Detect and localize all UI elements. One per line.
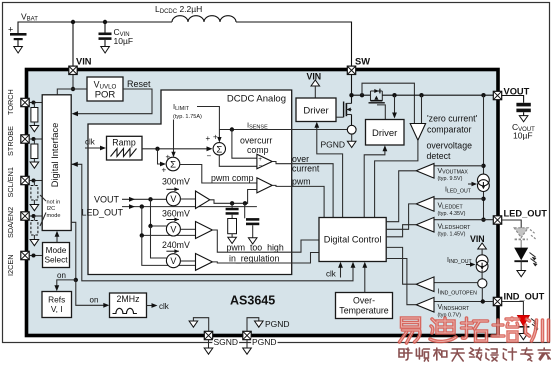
svg-text:10µF: 10µF xyxy=(114,36,134,46)
svg-text:VIN: VIN xyxy=(307,72,322,82)
inductor LDCDC xyxy=(172,16,236,22)
wire to driver2 top xyxy=(394,95,396,113)
wire ramp tap to sigma1 xyxy=(158,149,161,164)
junction dot ISENSE xyxy=(230,127,234,131)
ground PGND external xyxy=(246,340,248,348)
pin VIN xyxy=(69,66,77,74)
wire VOUT to CVOUT xyxy=(502,96,524,103)
wire SW pin down xyxy=(351,75,353,104)
pin SDA/EN2 xyxy=(21,212,29,220)
svg-text:240mV: 240mV xyxy=(162,240,190,250)
note not in I2C mode with leaders xyxy=(47,200,61,220)
svg-text:ILED_OUT: ILED_OUT xyxy=(445,187,472,195)
wire digital control to driver1 xyxy=(317,127,343,218)
svg-text:LED_OUT: LED_OUT xyxy=(504,209,548,219)
svg-text:PGND: PGND xyxy=(321,140,346,150)
svg-text:300mV: 300mV xyxy=(162,177,190,187)
svg-text:+: + xyxy=(258,156,262,163)
wire leddet input xyxy=(434,198,484,200)
svg-text:VVOUTMAX: VVOUTMAX xyxy=(438,168,469,176)
svg-text:Driver: Driver xyxy=(303,106,328,117)
sawtooth waveform xyxy=(111,149,137,157)
svg-text:POR: POR xyxy=(95,90,116,101)
wire ISENSE xyxy=(219,129,347,131)
wire vmeter300 to comparator xyxy=(180,198,195,200)
wire on-net to 2MHz xyxy=(76,280,104,305)
ground SCL resistor xyxy=(30,205,39,211)
svg-text:IND_OUT: IND_OUT xyxy=(504,292,545,302)
junction dot SCL/EN1 xyxy=(32,179,36,183)
wire ILIMIT to sigma2 xyxy=(197,107,219,139)
capacitor CVOUT xyxy=(516,103,530,107)
resistor R-SDA dashed (not in I2C mode) xyxy=(31,221,38,236)
ground LED_OUT xyxy=(517,271,526,277)
svg-text:mode: mode xyxy=(47,213,61,219)
svg-text:−: − xyxy=(259,163,263,170)
junction dot leddet tap xyxy=(481,197,485,201)
pin IND_OUT xyxy=(493,297,501,305)
wire mode select to interface xyxy=(56,235,58,243)
wire sense to PGND xyxy=(351,134,353,141)
wire to zero current comparator xyxy=(421,95,423,123)
watermark char pin xyxy=(416,348,429,361)
svg-text:SGND: SGND xyxy=(214,337,239,347)
watermark tagline row xyxy=(399,348,550,361)
wire in_regulation (240mV comp out) to digital control xyxy=(212,253,319,264)
comparator zero current xyxy=(410,124,425,141)
wire clk to ramp xyxy=(85,147,101,149)
current source ILED_OUT xyxy=(478,174,490,191)
svg-text:I2C: I2C xyxy=(47,206,56,212)
wire pwm_too_high (360mV comp out) to digital control xyxy=(212,230,319,252)
digital control box U-DC xyxy=(319,218,386,262)
svg-text:−: − xyxy=(207,152,212,161)
junction dot ledshort tap xyxy=(481,218,485,222)
comparator 300mV xyxy=(196,191,210,209)
watermark big char yi xyxy=(400,318,420,343)
junction dot on-net xyxy=(74,278,78,282)
ground TORCH resistor xyxy=(30,126,39,132)
ground SDA resistor xyxy=(30,240,39,246)
wire ledshort input / LED_OUT pin xyxy=(434,219,493,221)
capacitor Ccomp1 xyxy=(231,203,233,208)
comparator IINDOUTOPEN xyxy=(416,277,434,292)
svg-text:10µF: 10µF xyxy=(513,131,533,141)
svg-text:+: + xyxy=(166,153,171,162)
svg-text:pwm: pwm xyxy=(292,177,311,187)
svg-text:pwm comp: pwm comp xyxy=(211,173,254,183)
wire ramp output xyxy=(142,148,207,150)
svg-text:2MHz: 2MHz xyxy=(117,294,140,304)
wire LED_OUT to LEDs xyxy=(502,220,521,228)
svg-text:PGND: PGND xyxy=(252,337,277,347)
wire LED_OUT arrow xyxy=(122,206,257,208)
svg-text:Over-: Over- xyxy=(353,296,375,306)
current sense ammeter xyxy=(347,125,356,134)
pin I2CEN xyxy=(21,251,29,259)
svg-text:Temperature: Temperature xyxy=(339,306,388,316)
wire IND_OUT to indicator LED xyxy=(502,302,524,316)
wire ILIMIT to sigma1 xyxy=(173,120,175,154)
wire Reset POR to interface xyxy=(75,89,152,114)
ground IND_OUT xyxy=(519,334,528,340)
wire leddet output to digital control xyxy=(386,204,416,229)
svg-text:Σ: Σ xyxy=(170,160,176,171)
voltmeter 240mV xyxy=(166,249,180,268)
wire VOUT rail to 240 vmeter xyxy=(151,226,167,258)
wire TORCH to interface xyxy=(29,102,42,104)
watermark char she2 xyxy=(486,349,498,361)
wire vmeter360 to comparator xyxy=(180,228,195,230)
wire digital control to driver2 xyxy=(364,151,385,218)
transistor Q1 NMOS switch xyxy=(336,102,352,118)
voltmeter 300mV xyxy=(166,187,180,206)
svg-text:TORCH: TORCH xyxy=(6,89,15,115)
svg-text:Digital Interface: Digital Interface xyxy=(50,123,60,188)
wire VOUT arrow xyxy=(122,198,166,200)
ground stub SGND internal xyxy=(193,318,208,332)
junction dot driver2 supply xyxy=(392,93,396,97)
pin VOUT xyxy=(493,91,501,99)
wire VBAT rail xyxy=(18,22,172,33)
battery B1 xyxy=(8,25,27,47)
svg-text:'zero current': 'zero current' xyxy=(427,114,478,124)
junction dot VOUT feedback rail xyxy=(481,93,485,97)
svg-text:clk: clk xyxy=(159,302,170,311)
wire STROBE to interface xyxy=(29,138,42,140)
svg-text:+: + xyxy=(213,133,218,142)
resistor R-SCL dashed (not in I2C mode) xyxy=(31,186,38,201)
svg-text:(typ 0.7V): (typ 0.7V) xyxy=(438,312,462,318)
LED D1 (optional, grey) xyxy=(514,228,536,248)
LED D3 indicator (red) xyxy=(517,315,538,333)
ground Ccomp2 xyxy=(248,238,257,244)
VIN symbol ind source xyxy=(478,243,487,249)
junction dot zero current right input xyxy=(419,93,423,97)
pin SGND xyxy=(204,331,212,339)
mode select box U-MS xyxy=(43,243,70,268)
svg-text:clk: clk xyxy=(326,270,337,279)
clock waveform xyxy=(113,308,137,313)
chip body AS3645 xyxy=(27,70,499,336)
comparator VLEDDET xyxy=(416,197,434,212)
junction dot RC tap2 xyxy=(243,201,247,205)
svg-text:detect: detect xyxy=(427,151,452,161)
wire VOUT rail down xyxy=(151,199,167,226)
driver2 box (PMOS driver) xyxy=(366,120,405,146)
ground stub PGND internal xyxy=(247,318,259,332)
svg-text:in_regulation: in_regulation xyxy=(229,254,279,264)
junction dot I2CEN xyxy=(32,254,36,258)
junction dot CVIN tap xyxy=(103,20,107,24)
svg-text:(typ. 1.45V): (typ. 1.45V) xyxy=(438,232,466,238)
svg-text:(typ. 9.5V): (typ. 9.5V) xyxy=(438,176,463,182)
wire LED_OUT rail to 240 comp xyxy=(142,235,196,265)
ground below CVIN xyxy=(101,47,110,54)
voltmeter 360mV xyxy=(166,218,180,237)
svg-text:not in: not in xyxy=(47,200,61,206)
svg-text:SDA/EN2: SDA/EN2 xyxy=(6,207,15,238)
wire LED_OUT rail down xyxy=(142,207,196,236)
oscillator 2MHz box U-OSC xyxy=(110,293,147,318)
watermark char she xyxy=(399,348,412,360)
comparator VLEDSHORT xyxy=(416,217,434,232)
svg-text:overvoltage: overvoltage xyxy=(427,141,473,151)
svg-text:Digital Control: Digital Control xyxy=(324,235,382,245)
junction dot VIN tap xyxy=(71,20,75,24)
svg-text:STROBE: STROBE xyxy=(6,126,15,156)
summer sigma2 xyxy=(213,143,225,155)
comparator pwm xyxy=(257,178,272,193)
wire on-net to refs xyxy=(57,280,76,286)
DCDC Analog block outline xyxy=(88,90,292,275)
pin LED_OUT xyxy=(493,216,501,224)
junction dot LED_OUT rail xyxy=(140,204,144,208)
svg-text:Refs: Refs xyxy=(48,294,65,304)
watermark big char tuo xyxy=(462,318,488,341)
wire indoutopen output to digital control xyxy=(386,247,416,284)
comparator VINDSHORT xyxy=(416,297,434,312)
comparator 360mV xyxy=(196,222,213,239)
wire indoutopen input xyxy=(434,282,478,284)
watermark char he xyxy=(434,348,447,360)
watermark char tian xyxy=(451,349,464,361)
wire clk out of 2MHz xyxy=(147,305,153,307)
watermark big char pei xyxy=(492,318,519,341)
svg-text:PGND: PGND xyxy=(265,319,290,329)
watermark char ji xyxy=(503,348,516,360)
svg-text:IIND_OUT: IIND_OUT xyxy=(447,257,473,265)
wire ind source down xyxy=(481,270,483,279)
comparator overcurrent xyxy=(257,154,272,169)
LED D2 (flash LED) xyxy=(514,248,537,271)
svg-text:SCL/EN1: SCL/EN1 xyxy=(6,167,15,197)
svg-text:AS3645: AS3645 xyxy=(230,294,275,308)
wire zero current output to node xyxy=(375,140,418,217)
svg-text:Mode: Mode xyxy=(46,245,67,255)
capacitor Ccomp2 xyxy=(244,203,246,218)
watermark char jia xyxy=(538,348,550,360)
wire PMOS to VOUT rail xyxy=(382,94,493,96)
svg-text:clk: clk xyxy=(85,138,96,147)
svg-text:I2CEN: I2CEN xyxy=(6,255,15,277)
junction dot STROBE xyxy=(32,137,36,141)
svg-text:DCDC Analog: DCDC Analog xyxy=(227,94,286,105)
svg-text:Reset: Reset xyxy=(127,79,151,89)
svg-text:Driver: Driver xyxy=(372,128,397,139)
comparator VOUTMAX xyxy=(416,164,434,179)
watermark char xian xyxy=(470,348,482,360)
ground PGND driver1 xyxy=(347,141,356,147)
ground CVOUT xyxy=(519,116,528,122)
svg-text:VIN: VIN xyxy=(470,234,485,244)
wire ledshort output to digital control xyxy=(386,225,416,237)
svg-text:V, I: V, I xyxy=(51,304,63,314)
wire ind node to IND_OUT pin xyxy=(481,288,483,302)
watermark big char xun xyxy=(526,319,549,341)
pin STROBE xyxy=(21,135,29,143)
wire pwm to digital control xyxy=(272,185,324,217)
ground STROBE resistor xyxy=(30,162,39,168)
wire voutmax output to digital control xyxy=(386,171,416,222)
svg-text:+: + xyxy=(206,134,211,143)
wire SW node rail xyxy=(352,94,371,96)
ramp generator box xyxy=(107,136,143,160)
svg-text:LED_OUT: LED_OUT xyxy=(82,208,124,218)
wire inductor to SW xyxy=(236,22,352,66)
ground SGND external xyxy=(208,340,210,348)
wire overcurrent to digital control xyxy=(272,162,333,218)
svg-text:360mV: 360mV xyxy=(162,209,190,219)
pin SW xyxy=(347,66,355,74)
wire VIN into chip junction xyxy=(72,75,74,90)
ground below battery xyxy=(14,47,23,54)
wire VIN to digital interface xyxy=(57,89,73,95)
junction dot VIN internal xyxy=(71,87,75,91)
wire on-net from interface xyxy=(71,222,76,280)
svg-text:comparator: comparator xyxy=(427,125,472,135)
wire sigma1 out to pwm comp xyxy=(180,165,257,184)
svg-text:on: on xyxy=(90,296,99,305)
junction dot indshort tap xyxy=(481,299,485,303)
wire VIN symbol to driver1 xyxy=(314,86,316,98)
svg-text:VINDSHORT: VINDSHORT xyxy=(438,304,470,312)
POR block U-POR xyxy=(87,77,123,101)
wire SCL/EN1 to interface xyxy=(29,180,42,182)
wire VBAT to VIN pin xyxy=(72,22,74,66)
svg-text:pwm_too_high: pwm_too_high xyxy=(227,243,284,253)
wire VOUT feedback rail xyxy=(483,95,485,220)
svg-text:IIND_OUTOPEN: IIND_OUTOPEN xyxy=(438,289,478,297)
wire indshort output to digital control xyxy=(386,259,416,305)
svg-text:VOUT: VOUT xyxy=(94,194,120,204)
pin TORCH xyxy=(21,98,29,106)
junction dot VOUT rail 360 tap xyxy=(148,224,152,228)
refs box U-REF xyxy=(42,292,72,318)
transistor Q2 PMOS rectifier xyxy=(369,89,386,120)
svg-text:on: on xyxy=(57,271,66,280)
wire overtemp to digital control xyxy=(364,267,366,293)
junction dot SW node xyxy=(349,93,353,97)
junction dot VOUT rail xyxy=(148,197,152,201)
summer sigma1 xyxy=(166,157,180,171)
svg-text:(typ. 1.75A): (typ. 1.75A) xyxy=(173,114,202,120)
wire PMOS loop to zero current comparator xyxy=(362,83,414,123)
capacitor CVIN xyxy=(99,22,112,47)
svg-text:+: + xyxy=(162,166,167,175)
wire I2CEN to mode select xyxy=(29,255,42,257)
VIN symbol above driver1 xyxy=(311,80,320,86)
junction dot voutmax tap xyxy=(481,164,485,168)
digital interface box U-DI xyxy=(42,95,71,231)
svg-text:Select: Select xyxy=(44,254,68,264)
junction dot RC tap1 xyxy=(230,201,234,205)
wire VIN to POR xyxy=(73,88,87,90)
wire enable interface to digital control xyxy=(71,164,353,280)
driver1 box (NMOS driver) xyxy=(296,98,336,122)
svg-text:SW: SW xyxy=(355,57,370,67)
svg-text:Σ: Σ xyxy=(216,144,222,155)
junction dot TORCH xyxy=(32,101,36,105)
resistor R-STROBE pulldown xyxy=(31,144,38,159)
watermark char zhuan xyxy=(521,348,533,361)
svg-text:comp: comp xyxy=(247,145,269,155)
wire clk stub to digital control xyxy=(340,267,342,278)
over temperature box U-OT xyxy=(336,293,393,319)
wire NMOS source to current sense xyxy=(351,115,353,126)
svg-text:VIN: VIN xyxy=(76,57,92,67)
pin PGND xyxy=(243,331,251,339)
resistor Rcomp xyxy=(231,215,233,219)
comparator 240mV xyxy=(196,254,213,271)
resistor R-TORCH pulldown xyxy=(31,108,38,123)
junction dot SDA/EN2 xyxy=(32,214,36,218)
svg-text:Ramp: Ramp xyxy=(112,138,136,148)
junction dot PMOS left xyxy=(360,93,364,97)
svg-text:over: over xyxy=(292,154,309,164)
svg-text:(typ. 4.35V): (typ. 4.35V) xyxy=(438,211,466,217)
pin SCL/EN1 xyxy=(21,176,29,184)
junction dot ramp out xyxy=(155,147,159,151)
wire comp300 output to RC and pwm comp xyxy=(210,190,257,204)
ground Rcomp xyxy=(228,237,237,243)
junction dot LED_OUT rail 360 tap xyxy=(140,233,144,237)
watermark big char di xyxy=(430,318,456,341)
wire VIN to ind current source xyxy=(481,249,483,255)
wire voutmax input xyxy=(434,165,484,167)
wire sigma2 to overcurr comp xyxy=(219,155,257,166)
wire vmeter240 to comparator xyxy=(180,260,195,262)
current source IIND_OUT xyxy=(476,255,488,272)
node open circle ind xyxy=(478,279,487,288)
wire SDA/EN2 to interface xyxy=(29,215,42,217)
svg-text:VLEDSHORT: VLEDSHORT xyxy=(438,223,472,231)
svg-text:current: current xyxy=(292,164,320,174)
svg-text:VLEDDET: VLEDDET xyxy=(438,203,464,211)
wire ISENSE to overcurr comp xyxy=(232,130,257,159)
